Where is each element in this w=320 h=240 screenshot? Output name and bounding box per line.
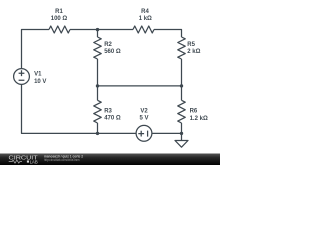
resistor R5 xyxy=(178,37,201,59)
svg-text:100 Ω: 100 Ω xyxy=(51,16,68,22)
resistor R6 xyxy=(178,100,208,123)
svg-text:1 kΩ: 1 kΩ xyxy=(139,16,152,22)
svg-text:R4: R4 xyxy=(141,9,149,15)
wire R5 to node C xyxy=(181,59,183,86)
ground xyxy=(175,133,188,147)
svg-text:R3: R3 xyxy=(104,108,112,114)
wire middle horizontal (node B to node C) xyxy=(98,85,182,87)
wire R3 to node D xyxy=(97,123,99,133)
svg-text:470 Ω: 470 Ω xyxy=(104,116,121,122)
node C junction xyxy=(180,84,183,87)
svg-text:R1: R1 xyxy=(55,9,63,15)
node A junction xyxy=(96,28,99,31)
footer watermark bar xyxy=(0,154,220,166)
wire R2 to node B xyxy=(97,59,99,86)
svg-text:V1: V1 xyxy=(34,72,42,78)
svg-text:1.2 kΩ: 1.2 kΩ xyxy=(190,116,208,122)
resistor R1 xyxy=(49,9,70,33)
svg-text:10 V: 10 V xyxy=(34,79,46,85)
svg-text:R5: R5 xyxy=(187,42,195,48)
wire top-left (left rail top + segment to R1) xyxy=(22,30,50,69)
resistor R2 xyxy=(94,37,121,59)
svg-text:560 Ω: 560 Ω xyxy=(104,49,121,55)
voltage source V2 xyxy=(136,108,152,141)
wire V2 to node E xyxy=(152,132,182,134)
resistor R3 xyxy=(94,100,121,123)
node B junction xyxy=(96,84,99,87)
svg-text:http:circuitlab.com/cb6e3rsm: http:circuitlab.com/cb6e3rsm xyxy=(44,158,80,162)
wire top-right corner (R4 to R5) xyxy=(154,30,182,38)
svg-text:LAB: LAB xyxy=(30,159,38,165)
svg-text:R6: R6 xyxy=(190,109,198,115)
node E junction xyxy=(180,132,183,135)
node D junction xyxy=(96,132,99,135)
wire bottom-left (V1 to corner to V2) xyxy=(22,84,137,133)
CircuitLab logo resistor squiggle xyxy=(9,160,22,163)
svg-text:5 V: 5 V xyxy=(139,116,148,122)
resistor R4 xyxy=(133,9,154,33)
wire R1 to node A xyxy=(70,29,98,31)
svg-text:R2: R2 xyxy=(104,42,112,48)
CircuitLab logo node square xyxy=(27,161,29,163)
wire node C to R6 xyxy=(181,86,183,100)
wire node B to R3 xyxy=(97,86,99,100)
svg-text:V2: V2 xyxy=(140,108,148,114)
svg-text:2 kΩ: 2 kΩ xyxy=(187,49,200,55)
wire node A to R2 xyxy=(97,30,99,38)
wire R6 to node E xyxy=(181,123,183,133)
voltage source V1 xyxy=(14,69,47,85)
wire node A to R4 xyxy=(98,29,134,31)
